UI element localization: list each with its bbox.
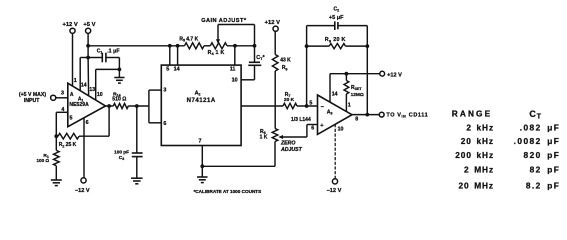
wire A3 output [352, 113, 379, 117]
pin label 5 (A2) [166, 67, 169, 73]
svg-text:200 kHz: 200 kHz [455, 150, 494, 160]
wire +5V down to C1 node [86, 33, 90, 59]
wiper arrow ZERO ADJUST [278, 125, 317, 140]
wire A2 pin 11 drop [234, 46, 236, 65]
capacitor C1 .1uF [88, 53, 119, 63]
wire A2 pin 7 to ground [200, 146, 204, 178]
svg-text:6: 6 [311, 125, 314, 131]
resistor RSET 12M [344, 74, 349, 112]
pin label 10 (A3) [338, 127, 344, 133]
svg-text:2 kHz: 2 kHz [466, 122, 494, 132]
power terminal -12V (A1) [75, 178, 90, 194]
capacitor C3 100pF [132, 106, 143, 178]
resistor R14 510 ohm [106, 103, 149, 108]
label R7 20K [284, 92, 295, 103]
wire A1 pin 4 [54, 112, 67, 138]
pin label 3 (A2) [163, 87, 166, 93]
resistor R6 43K [272, 31, 278, 128]
label CT* [256, 55, 265, 61]
op-amp A3 L144 [318, 95, 353, 134]
svg-text:510 Ω: 510 Ω [112, 96, 126, 102]
power terminal +12V (R6 branch) [265, 20, 280, 31]
label GAIN ADJUST* [201, 18, 247, 24]
power terminal +5V [83, 22, 95, 34]
svg-text:INPUT: INPUT [24, 98, 40, 104]
svg-text:20 kHz: 20 kHz [461, 136, 494, 146]
svg-text:20 MHz: 20 MHz [459, 181, 495, 191]
svg-text:.0082 μF: .0082 μF [514, 136, 561, 146]
svg-text:8: 8 [355, 116, 358, 122]
wire C1 to ground node [118, 58, 122, 72]
pin label 11 (A2) [230, 67, 236, 73]
svg-text:A3: A3 [327, 110, 333, 116]
svg-text:.082 μF: .082 μF [520, 122, 561, 132]
potentiometer R4 1K [204, 43, 256, 49]
note CALIBRATE AT 1000 COUNTS [194, 189, 262, 194]
label R6 1K [260, 129, 268, 140]
svg-text:R6: R6 [282, 65, 288, 71]
power terminal +12V (A3 supply) [380, 71, 402, 78]
ground (C1 / A1 pin 10) [114, 69, 124, 83]
svg-text:820 pF: 820 pF [524, 150, 561, 160]
svg-text:10: 10 [232, 78, 238, 84]
svg-text:CT: CT [529, 109, 541, 120]
svg-text:5: 5 [70, 115, 73, 121]
resistor R2 25K [58, 133, 109, 139]
svg-text:5: 5 [166, 67, 169, 73]
pin label 5 (A1) [70, 115, 73, 121]
pin label 6 (A3) [311, 125, 314, 131]
label C1 .1uF [97, 48, 121, 54]
ground (A2 pin 7) [197, 177, 208, 183]
svg-text:+: + [320, 123, 324, 129]
output terminal TO VIN LD111 [379, 112, 428, 119]
svg-text:6: 6 [86, 120, 89, 126]
svg-text:+5 μF: +5 μF [329, 15, 344, 21]
svg-text:100 Ω: 100 Ω [36, 158, 49, 163]
svg-text:+12 V: +12 V [265, 20, 280, 26]
svg-text:1 K: 1 K [260, 134, 268, 140]
svg-text:1/3 L144: 1/3 L144 [291, 117, 311, 123]
label 1/3 L144 [291, 117, 311, 123]
label R2 25K [59, 142, 77, 148]
wire rail to A2 pin 14 [177, 46, 179, 65]
svg-text:11: 11 [230, 67, 236, 73]
svg-text:NE529A: NE529A [69, 102, 89, 108]
wire to A2 pins 3 and 6 [149, 90, 161, 123]
svg-text:14: 14 [332, 92, 338, 98]
label C2 +5uF [329, 6, 344, 21]
svg-text:C3: C3 [119, 155, 124, 161]
label ZERO ADJUST [280, 141, 303, 154]
svg-text:1: 1 [348, 103, 351, 109]
wire +5V rail [88, 44, 184, 48]
svg-text:CT*: CT* [256, 55, 265, 61]
svg-text:+12 V: +12 V [62, 22, 77, 28]
wire rail to A2 pin 5 [169, 46, 171, 65]
op-amp A1 NE529A [68, 83, 106, 127]
pin label 3 (A1) [61, 90, 64, 96]
wire ground to R6 1K bottom [202, 142, 275, 167]
svg-text:R4 1 K: R4 1 K [208, 50, 225, 56]
pin label 5 (A3) [309, 101, 312, 107]
pin label 14 (A3) [332, 92, 338, 98]
svg-text:+5 V: +5 V [83, 22, 95, 28]
svg-text:10: 10 [97, 92, 103, 98]
resistor R5 4.7K [185, 43, 205, 49]
wire A3 pin 10 to -12V [334, 124, 336, 179]
svg-text:C1: C1 [97, 48, 103, 54]
pin label 6 (A1) [86, 120, 89, 126]
svg-text:1: 1 [74, 78, 77, 84]
power terminal -12V (A3) [327, 179, 342, 194]
svg-text:R9 20 K: R9 20 K [325, 37, 346, 43]
power terminal +12V (A1 supply) [62, 22, 77, 34]
label 100pF C3 [114, 150, 129, 161]
svg-text:14: 14 [174, 67, 180, 73]
label RSET 12M [351, 85, 364, 98]
svg-text:R5 4.7 K: R5 4.7 K [179, 36, 198, 42]
pin label 6 (A2) [163, 121, 166, 127]
svg-text:100 pF: 100 pF [114, 150, 129, 155]
pin label 10 (A1) [97, 92, 103, 98]
wire +12V to A1 pin 1 [72, 33, 74, 86]
wire A1 output to feedback [108, 106, 110, 136]
svg-text:+12 V: +12 V [387, 72, 402, 78]
resistor R6 1K zero-adjust [272, 129, 278, 142]
svg-text:R7: R7 [285, 92, 291, 98]
svg-text:RSET: RSET [351, 85, 362, 91]
label R4 1K [208, 50, 225, 56]
svg-text:82 pF: 82 pF [530, 165, 561, 175]
svg-text:RANGE: RANGE [452, 108, 492, 118]
label R1 100 [36, 153, 49, 163]
svg-text:A2: A2 [195, 90, 201, 96]
resistor R9 20K [307, 44, 370, 49]
input terminal (+5V MAX) INPUT [19, 92, 56, 104]
wire CT to A2 pin 10 [241, 79, 254, 81]
table RANGE / CT [452, 108, 561, 190]
svg-text:−: − [321, 104, 325, 110]
svg-text:2 MHz: 2 MHz [464, 165, 494, 175]
svg-text:GAIN ADJUST*: GAIN ADJUST* [201, 18, 247, 24]
wire C2-R9 right leg to A3 output [366, 26, 368, 115]
svg-text:20 K: 20 K [284, 97, 295, 103]
wire A2 output [241, 105, 283, 107]
label R14 510 [112, 91, 126, 102]
capacitor CT [248, 46, 261, 80]
wire A3 pin 14 to +12V [330, 72, 380, 102]
wiper arrow GAIN ADJUST [216, 25, 255, 46]
wire input to A1 pin 3 [56, 97, 68, 99]
pin label 7 (A2) [199, 139, 202, 145]
resistor R7 20K [283, 103, 318, 108]
node A1 output [107, 104, 111, 108]
svg-text:3: 3 [61, 90, 64, 96]
svg-text:C2: C2 [333, 6, 339, 12]
svg-text:10: 10 [338, 127, 344, 133]
svg-text:3: 3 [163, 87, 166, 93]
capacitor C2 5uF [307, 21, 368, 30]
pin label 10 (A2) [232, 78, 238, 84]
svg-text:–12 V: –12 V [327, 188, 342, 194]
pin label 4 (A1) [61, 107, 64, 113]
pin label 1 (A3) [348, 103, 351, 109]
pin label 14 (A1) [81, 83, 87, 89]
svg-text:13: 13 [89, 87, 95, 93]
wire C2-R9 left leg [305, 26, 309, 106]
resistor R1 100 ohm [54, 136, 60, 180]
svg-text:5: 5 [309, 101, 312, 107]
node C3 tap [135, 104, 139, 108]
ground (C3) [131, 178, 143, 184]
svg-text:*CALIBRATE AT 1000 COUNTS: *CALIBRATE AT 1000 COUNTS [194, 189, 262, 194]
wire ground node to A1 pin 10 [96, 69, 120, 100]
label R5 4.7K [179, 36, 198, 42]
svg-text:7: 7 [199, 139, 202, 145]
label 43K R6 [280, 58, 291, 72]
svg-text:12MΩ: 12MΩ [351, 92, 364, 98]
svg-text:14: 14 [81, 83, 87, 89]
pin label 8 (A3) [355, 116, 358, 122]
pin label 14 (A2) [174, 67, 180, 73]
svg-text:4: 4 [61, 107, 64, 113]
IC A2 N74121A [161, 65, 241, 145]
svg-text:–12 V: –12 V [75, 188, 90, 194]
svg-text:43 K: 43 K [280, 58, 291, 64]
wire C1 node to A1 pin 14 [80, 58, 88, 91]
wire A1 pin 6 to -12V [83, 118, 85, 178]
svg-text:A: A [70, 92, 74, 98]
svg-text:6: 6 [163, 121, 166, 127]
svg-text:ZERO: ZERO [280, 141, 295, 147]
svg-text:TO VIN CD111: TO VIN CD111 [386, 113, 428, 119]
svg-text:ADJUST: ADJUST [280, 147, 303, 153]
svg-text:R2 25 K: R2 25 K [59, 142, 77, 148]
svg-text:8.2 pF: 8.2 pF [526, 181, 560, 191]
pin label 1 (A1) [74, 78, 77, 84]
svg-text:.1 μF: .1 μF [107, 49, 120, 55]
svg-text:N74121A: N74121A [187, 98, 216, 104]
wire C1 node to A1 pin 13 [87, 58, 90, 96]
pin label 13 (A1) [89, 87, 95, 93]
label R9 20K [325, 37, 346, 43]
ground (R1) [51, 180, 62, 186]
